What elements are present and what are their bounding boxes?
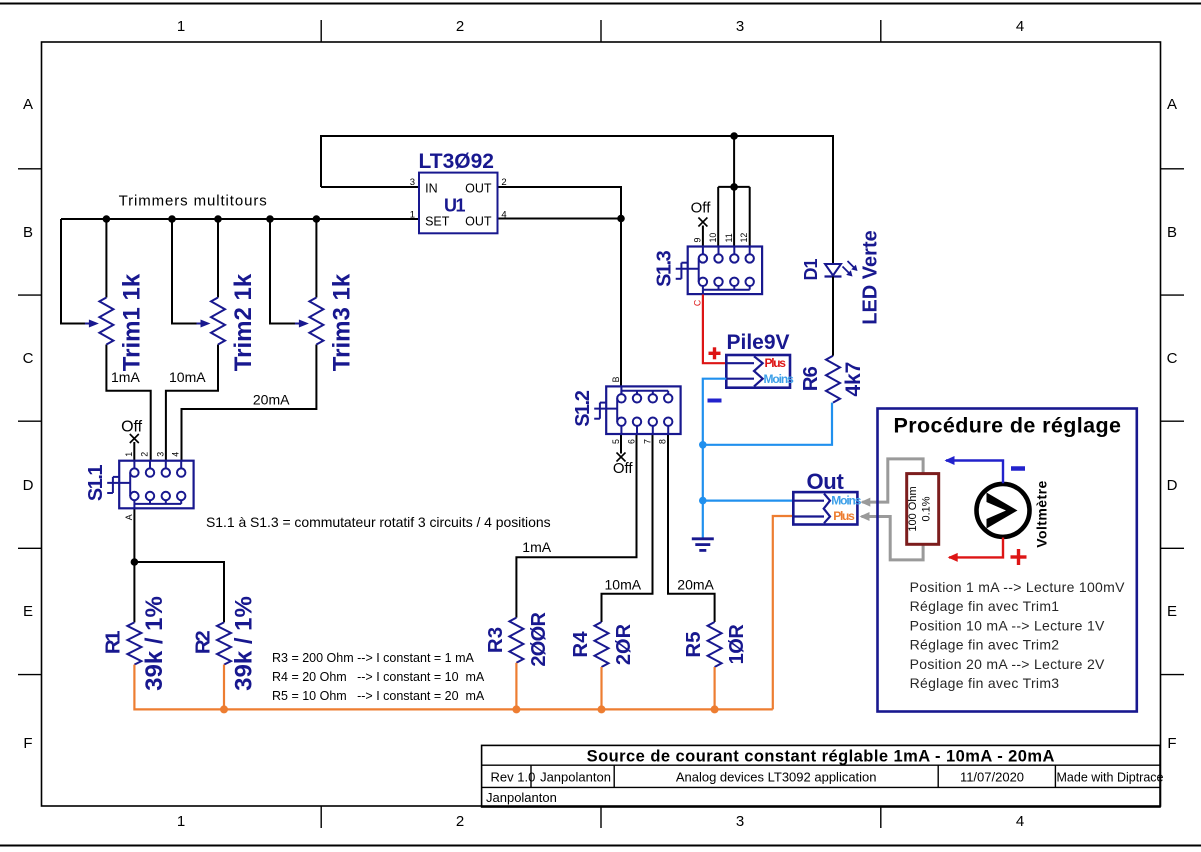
junction R1/R2 — [131, 558, 139, 566]
plus symbol voltmeter (red) — [1011, 549, 1027, 565]
rotary switch S1.3 — [654, 233, 762, 306]
svg-text:A: A — [1167, 96, 1177, 113]
svg-text:Position 1 mA --> Lecture 100m: Position 1 mA --> Lecture 100mV — [910, 579, 1125, 595]
wire: Trim2 top lead — [217, 219, 219, 298]
svg-text:S1.1 à S1.3 = commutateur rota: S1.1 à S1.3 = commutateur rotatif 3 circ… — [206, 514, 551, 530]
svg-text:10mA: 10mA — [169, 369, 206, 385]
wire: Trim2 wiper feed — [172, 219, 205, 324]
wire: S1.1 common A down — [133, 508, 135, 562]
wire: OUT pin 2 to junction — [498, 187, 622, 219]
svg-text:B: B — [23, 224, 33, 241]
svg-text:2ØR: 2ØR — [613, 623, 635, 665]
svg-text:S1.2: S1.2 — [572, 390, 594, 427]
wire: Trim3 top lead — [315, 219, 317, 298]
svg-text:Trimmers multitours: Trimmers multitours — [119, 193, 268, 210]
svg-text:4: 4 — [1016, 813, 1024, 830]
svg-text:D: D — [23, 477, 34, 494]
junction orange R2 — [220, 705, 228, 713]
junction orange R4 — [598, 705, 606, 713]
svg-text:4: 4 — [1016, 18, 1024, 35]
svg-text:Position 20 mA --> Lecture 2V: Position 20 mA --> Lecture 2V — [910, 656, 1105, 672]
wire: Trim1 wiper feed — [61, 219, 93, 324]
svg-text:Réglage fin avec Trim1: Réglage fin avec Trim1 — [910, 598, 1060, 614]
resistor R2 39k/1% — [191, 596, 257, 691]
wire: R2 bottom orange — [223, 665, 225, 710]
svg-text:LT3Ø92: LT3Ø92 — [419, 150, 494, 173]
voltmeter — [977, 480, 1050, 548]
op-amp U1 LT3092 — [410, 150, 507, 233]
svg-text:20mA: 20mA — [677, 577, 714, 593]
potentiometer Trim2 1k — [197, 273, 258, 371]
svg-text:100 Ohm: 100 Ohm — [907, 486, 919, 531]
svg-text:Voltmètre: Voltmètre — [1033, 480, 1049, 548]
svg-text:0.1%: 0.1% — [921, 496, 933, 521]
svg-text:Trim1 1k: Trim1 1k — [118, 273, 145, 371]
resistor R1 39k/1% — [102, 596, 168, 691]
ground symbol — [692, 539, 714, 551]
svg-text:Made with Diptrace: Made with Diptrace — [1057, 771, 1164, 785]
wire: OUT pin 4 line — [498, 218, 622, 220]
wire: voltmeter plus lead (red) — [948, 538, 1003, 562]
procedure text — [910, 579, 1125, 691]
wire: voltmeter minus lead (blue) — [945, 456, 1004, 483]
svg-text:12: 12 — [739, 233, 749, 243]
svg-text:D1: D1 — [801, 259, 821, 281]
svg-text:IN: IN — [425, 181, 438, 195]
svg-text:Rev 1.0: Rev 1.0 — [491, 770, 536, 785]
svg-text:2: 2 — [456, 813, 464, 830]
wire: grey measurement lead to Out Plus — [860, 512, 924, 560]
no-connect X on S1.3 pin 9 — [698, 218, 707, 247]
svg-text:R2: R2 — [191, 631, 214, 654]
wire: LED to R6 — [832, 277, 834, 356]
junction top rail / S1.3 — [730, 132, 738, 140]
svg-text:Plus: Plus — [833, 509, 855, 523]
junction blue Out — [699, 497, 707, 505]
svg-text:3: 3 — [155, 452, 165, 457]
svg-text:Plus: Plus — [765, 356, 787, 370]
resistor R3 200R — [484, 612, 550, 667]
wire: Trim1 bottom to S1.1 pin 2 — [106, 345, 150, 461]
svg-text:F: F — [1167, 735, 1176, 752]
svg-text:S1.1: S1.1 — [85, 465, 107, 502]
svg-text:1ØR: 1ØR — [726, 624, 748, 665]
svg-text:11/07/2020: 11/07/2020 — [960, 770, 1024, 785]
svg-text:10mA: 10mA — [605, 577, 642, 593]
rotary switch S1.2 — [572, 376, 680, 444]
svg-text:Trim3 1k: Trim3 1k — [328, 273, 355, 371]
junction OUT2/OUT4 — [617, 215, 625, 223]
resistor R5 10R — [682, 622, 748, 667]
svg-text:B: B — [611, 376, 621, 382]
svg-text:4k7: 4k7 — [842, 362, 865, 397]
junction S1.3 pins — [730, 183, 738, 191]
wire: S1.3 rail drop — [733, 136, 735, 187]
wire: S1.2 pin 8 to R5 — [668, 434, 715, 622]
junction SET/Trim1 top — [103, 215, 111, 223]
svg-text:R3 = 200 Ohm --> I constant =: R3 = 200 Ohm --> I constant = 1 mA — [272, 651, 474, 665]
wire: S1.2 pin 6 to R3 — [516, 434, 636, 618]
wire: Trim2 bottom to S1.1 pin 3 — [166, 345, 218, 461]
wire: S1.2 pin 5 with no-connect X — [617, 434, 626, 462]
svg-text:4: 4 — [501, 210, 506, 221]
resistor R4 20R — [569, 622, 635, 667]
svg-text:S1.3: S1.3 — [654, 250, 676, 287]
svg-text:9: 9 — [692, 238, 702, 243]
svg-text:R5 = 10 Ohm --> I constant =: R5 = 10 Ohm --> I constant = 20 mA — [272, 689, 485, 703]
minus symbol voltmeter (blue) — [1011, 466, 1025, 471]
svg-text:Off: Off — [691, 200, 712, 217]
rotary switch S1.1 — [85, 452, 193, 521]
svg-text:B: B — [1167, 224, 1177, 241]
note R3 R4 R5 values — [272, 651, 485, 703]
svg-text:C: C — [1167, 350, 1178, 367]
potentiometer Trim3 1k — [295, 273, 356, 371]
wire: R1 top lead — [133, 562, 135, 622]
svg-text:11: 11 — [724, 233, 734, 242]
svg-text:R5: R5 — [682, 631, 705, 657]
junction SET/Trim2 feed — [168, 215, 176, 223]
junction SET/Trim3 feed — [266, 215, 274, 223]
svg-text:1: 1 — [410, 210, 415, 221]
plus symbol (red) — [709, 347, 721, 359]
svg-text:R6: R6 — [799, 366, 822, 391]
svg-text:Procédure de réglage: Procédure de réglage — [894, 414, 1122, 438]
svg-text:SET: SET — [425, 214, 450, 228]
shunt resistor 100 Ohm 0.1% — [907, 474, 939, 545]
svg-text:Réglage fin avec Trim2: Réglage fin avec Trim2 — [910, 637, 1060, 653]
svg-text:E: E — [23, 603, 33, 620]
no-connect X on S1.1 pin 1 — [130, 434, 139, 461]
svg-text:Pile9V: Pile9V — [727, 331, 790, 354]
svg-text:39k / 1%: 39k / 1% — [231, 596, 258, 691]
svg-text:2ØØR: 2ØØR — [528, 612, 550, 667]
svg-text:8: 8 — [658, 439, 668, 444]
svg-text:R4 = 20 Ohm --> I constant =: R4 = 20 Ohm --> I constant = 10 mA — [272, 670, 485, 684]
junction orange R5 — [711, 705, 719, 713]
wire: S1.3 pin 11 — [733, 187, 735, 247]
svg-text:U1: U1 — [444, 195, 465, 215]
svg-text:OUT: OUT — [465, 214, 492, 228]
svg-text:E: E — [1167, 603, 1177, 620]
svg-text:OUT: OUT — [465, 181, 492, 195]
resistor R6 4k7 — [799, 356, 865, 403]
svg-text:39k / 1%: 39k / 1% — [141, 596, 168, 691]
svg-text:20mA: 20mA — [253, 392, 290, 408]
wire: grey measurement lead to Out Moins — [860, 459, 923, 507]
svg-text:Trim2 1k: Trim2 1k — [230, 273, 257, 371]
svg-text:3: 3 — [736, 813, 744, 830]
svg-text:10: 10 — [708, 233, 718, 243]
svg-text:1: 1 — [124, 452, 134, 457]
svg-text:Réglage fin avec Trim3: Réglage fin avec Trim3 — [910, 675, 1060, 691]
svg-text:Moins: Moins — [764, 372, 795, 386]
junction orange R3 — [512, 705, 520, 713]
svg-text:1: 1 — [177, 18, 185, 35]
title block — [482, 745, 1164, 807]
minus symbol (blue) — [708, 399, 722, 403]
svg-text:2: 2 — [140, 452, 150, 457]
svg-text:Janpolanton: Janpolanton — [540, 770, 611, 785]
wire: R4 bottom orange — [600, 667, 602, 709]
svg-text:C: C — [692, 299, 702, 306]
procedure box — [878, 409, 1137, 712]
svg-text:1: 1 — [177, 813, 185, 830]
wire: S1.3 common C to battery plus (red) — [703, 295, 726, 364]
svg-text:3: 3 — [736, 18, 744, 35]
svg-text:Out: Out — [807, 469, 845, 494]
svg-text:A: A — [124, 514, 134, 520]
svg-text:2: 2 — [501, 177, 506, 188]
potentiometer Trim1 1k — [85, 273, 145, 371]
svg-text:R1: R1 — [102, 631, 125, 654]
svg-text:D: D — [1167, 477, 1178, 494]
svg-text:5: 5 — [611, 439, 621, 444]
junction SET/Trim2 top — [214, 215, 222, 223]
svg-text:7: 7 — [642, 439, 652, 444]
svg-text:1mA: 1mA — [522, 539, 551, 555]
svg-text:R4: R4 — [569, 631, 592, 658]
svg-text:A: A — [23, 96, 33, 113]
svg-text:Position 10 mA --> Lecture 1V: Position 10 mA --> Lecture 1V — [910, 617, 1105, 633]
wire: Trim3 wiper feed — [270, 219, 303, 324]
svg-text:LED Verte: LED Verte — [859, 230, 881, 324]
wire: Trim3 bottom to S1.1 pin 4 — [182, 345, 317, 461]
battery Pile9V — [726, 331, 794, 388]
wire: S1.3 pin 10 — [717, 187, 719, 247]
svg-text:4: 4 — [171, 452, 181, 457]
connector Out — [793, 469, 861, 525]
svg-text:2: 2 — [456, 18, 464, 35]
wire: R3 bottom orange — [515, 663, 517, 710]
svg-text:6: 6 — [627, 439, 637, 444]
svg-text:Analog devices LT3092 applicat: Analog devices LT3092 application — [676, 770, 877, 785]
wire: blue to Out Moins — [703, 500, 794, 502]
wire: Trim1 top lead — [105, 219, 107, 298]
wire: R5 bottom orange — [713, 667, 715, 709]
svg-text:Off: Off — [613, 460, 634, 477]
junction SET/Trim3 top — [313, 215, 321, 223]
LED D1 LED Verte — [801, 230, 881, 324]
svg-text:Source de courant constant rég: Source de courant constant réglable 1mA … — [587, 748, 1055, 766]
wire: SET rail — [61, 218, 419, 220]
svg-text:Off: Off — [121, 418, 143, 435]
wire: blue to R6 bottom — [703, 403, 832, 445]
svg-text:C: C — [23, 350, 34, 367]
svg-text:Janpolanton: Janpolanton — [486, 790, 557, 805]
wire: orange return rail — [134, 516, 794, 709]
svg-text:R3: R3 — [484, 627, 507, 653]
wire: common to R2 — [134, 562, 224, 622]
wire: S1.2 pin 7 to R4 — [602, 434, 653, 622]
wire: battery moins to ground (blue) — [703, 379, 727, 538]
svg-text:Moins: Moins — [831, 493, 862, 507]
wire: S1.3 pins 10-12 header — [718, 186, 750, 188]
wire: junction down to S1.2 common B — [620, 219, 622, 387]
junction blue R6 — [699, 441, 707, 449]
wire: top rail from IN to LED — [321, 136, 833, 264]
wire: S1.3 pin 12 — [749, 187, 751, 247]
svg-text:F: F — [23, 735, 32, 752]
svg-text:3: 3 — [410, 177, 415, 188]
wire: IN pin 3 feed — [321, 186, 419, 188]
